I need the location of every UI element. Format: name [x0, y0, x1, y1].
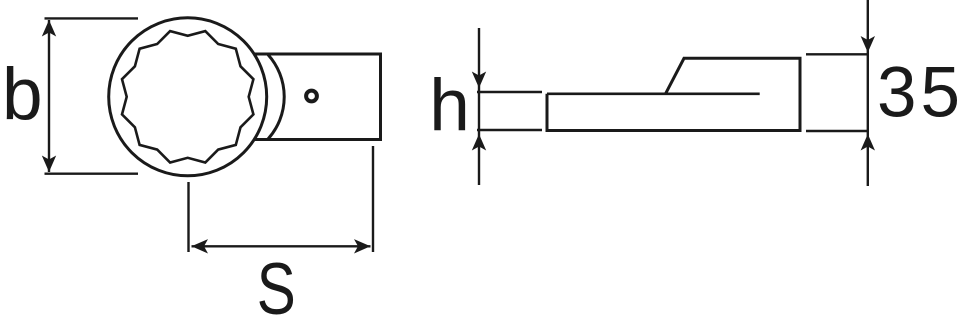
- dim 35 line: [867, 0, 869, 186]
- dim S right extension line: [372, 146, 374, 252]
- svg-text:b: b: [2, 54, 43, 135]
- side view outline: [547, 58, 800, 130]
- dim b line: [48, 20, 50, 172]
- svg-text:h: h: [429, 65, 470, 146]
- dim b top arrowhead: [42, 20, 56, 37]
- dim 35 bottom arrowhead: [861, 134, 875, 151]
- dim 35 bottom extension line: [806, 130, 869, 132]
- dim 35 top arrowhead: [861, 36, 875, 53]
- dim b top extension line: [45, 17, 139, 19]
- collar arc: [268, 55, 284, 139]
- svg-text:S: S: [257, 249, 296, 328]
- ring outer circle: [109, 18, 267, 176]
- dim 35 top extension line: [806, 53, 869, 55]
- dim S right arrowhead: [354, 239, 371, 253]
- dim S left arrowhead: [192, 239, 209, 253]
- tang hole: [306, 91, 317, 102]
- tang rectangle: [254, 54, 380, 140]
- dim h bottom arrowhead: [472, 134, 486, 151]
- dim h top arrowhead: [472, 72, 486, 89]
- dim b bottom arrowhead: [42, 156, 56, 173]
- side view tang top line: [547, 92, 760, 95]
- svg-text:35: 35: [877, 54, 960, 133]
- dim h line: [478, 28, 480, 185]
- dim h top extension line: [477, 91, 542, 93]
- dim b bottom extension line: [45, 172, 139, 174]
- ring 12-point inner profile: [122, 31, 253, 162]
- dim h bottom extension line: [477, 129, 542, 131]
- dim S line: [192, 245, 371, 247]
- dim S left extension line: [187, 182, 189, 252]
